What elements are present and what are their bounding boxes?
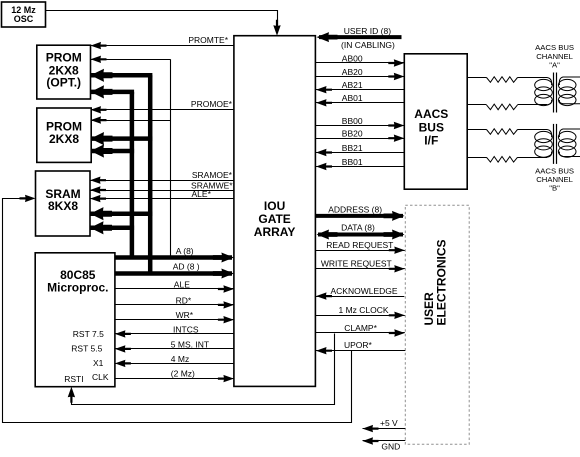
svg-text:2KX8: 2KX8 <box>49 132 79 146</box>
svg-text:GND: GND <box>381 441 400 451</box>
label AACS BUS CHANNEL B <box>535 166 574 192</box>
wire AB20 with label <box>315 67 404 80</box>
wire branch to PROM(OPT.) upper <box>91 56 171 63</box>
svg-text:"A": "A" <box>549 61 560 70</box>
wire PROMTE* with label <box>91 35 234 49</box>
wire 5 MS. INT with label <box>115 339 234 352</box>
wire AB01 with label <box>315 93 404 106</box>
wire BB00 with label <box>315 116 404 129</box>
bus A (8) with label <box>115 246 234 263</box>
PROM 2KX8 (OPT.) box <box>37 45 91 99</box>
80C85 Microprocessor box <box>35 253 115 387</box>
svg-text:PROM: PROM <box>46 119 82 133</box>
bus AD (8) with label <box>115 262 234 279</box>
wire SRAMWE* with label <box>90 180 234 193</box>
svg-text:(OPT.): (OPT.) <box>46 75 81 89</box>
wire PROMOE* with label <box>91 99 234 114</box>
svg-text:SRAMOE*: SRAMOE* <box>192 170 233 180</box>
svg-text:UPOR*: UPOR* <box>344 340 373 350</box>
svg-text:CLK: CLK <box>92 372 109 382</box>
svg-text:PROMOE*: PROMOE* <box>191 99 233 109</box>
svg-text:BB20: BB20 <box>342 129 363 139</box>
svg-text:AB21: AB21 <box>342 80 363 90</box>
wire AB00 with label <box>315 53 404 66</box>
wire BB21 with label <box>315 143 404 156</box>
transformer T1 channel A <box>535 73 580 113</box>
wire 4 Mz with label <box>115 354 234 367</box>
AACS BUS I/F box <box>404 54 467 189</box>
svg-text:BB21: BB21 <box>342 143 363 153</box>
wire UPOR* with label <box>315 340 405 355</box>
svg-text:AB20: AB20 <box>342 67 363 77</box>
svg-text:RD*: RD* <box>176 295 192 305</box>
SRAM 8KX8 box <box>36 171 91 236</box>
bus branch A to PROM <box>91 144 135 157</box>
svg-text:4 Mz: 4 Mz <box>171 354 189 364</box>
wire UPOR to SRAM left side <box>3 195 352 423</box>
bus branch AD to PROM(OPT.) <box>91 69 153 82</box>
bus branch AD to SRAM <box>90 207 152 220</box>
wire address-line vertical branch x=170 <box>170 59 172 257</box>
wire branch to PROM lower <box>91 116 171 123</box>
svg-text:DATA (8): DATA (8) <box>341 223 375 233</box>
resistor R3 channel B upper <box>467 129 547 135</box>
bus branch AD to PROM <box>91 132 153 145</box>
resistor R2 channel A lower <box>467 104 547 110</box>
svg-text:AACS: AACS <box>414 107 448 121</box>
svg-text:IOU: IOU <box>264 199 285 213</box>
svg-text:ELECTRONICS: ELECTRONICS <box>435 239 449 325</box>
bus USER ID (8) with label <box>317 26 402 42</box>
transformer T2 channel B <box>535 124 580 164</box>
wire READ REQUEST with label <box>315 240 404 254</box>
wire 1 Mz CLOCK with label <box>315 305 404 319</box>
svg-text:GATE: GATE <box>258 212 290 226</box>
svg-text:RST 5.5: RST 5.5 <box>71 344 102 354</box>
svg-text:PROM: PROM <box>46 50 82 64</box>
wire BB20 with label <box>315 129 404 142</box>
svg-text:BB01: BB01 <box>342 157 363 167</box>
wire WRITE REQUEST with label <box>315 259 404 273</box>
svg-text:RST 7.5: RST 7.5 <box>73 329 104 339</box>
wire SRAMOE* with label <box>90 170 234 184</box>
svg-text:RSTI: RSTI <box>64 374 83 384</box>
bus branch A to PROM(OPT.) <box>91 85 135 98</box>
wire INTCS with label <box>115 325 234 338</box>
svg-text:ACKNOWLEDGE: ACKNOWLEDGE <box>331 286 398 296</box>
bus branch A to SRAM <box>90 221 134 234</box>
svg-text:A (8): A (8) <box>176 246 194 256</box>
resistor R1 channel A upper <box>467 77 547 83</box>
oscillator box 12 Mz OSC <box>2 2 46 27</box>
svg-text:AB01: AB01 <box>342 93 363 103</box>
svg-text:READ REQUEST: READ REQUEST <box>326 240 393 250</box>
resistor R4 channel B lower <box>467 157 547 163</box>
svg-text:WR*: WR* <box>176 310 194 320</box>
svg-text:(IN CABLING): (IN CABLING) <box>341 40 395 50</box>
wire AB21 with label <box>315 80 404 93</box>
svg-text:8KX8: 8KX8 <box>48 199 78 213</box>
bus ADDRESS (8) with label <box>315 204 404 221</box>
bus AD vertical <box>148 75 153 275</box>
svg-text:+5 V: +5 V <box>380 418 398 428</box>
wire +5 V with label <box>363 418 406 432</box>
svg-text:AACS BUS: AACS BUS <box>535 43 574 52</box>
svg-text:OSC: OSC <box>14 14 34 24</box>
wire ALE* with label <box>90 189 234 202</box>
svg-text:Microproc.: Microproc. <box>47 280 108 294</box>
svg-text:ALE: ALE <box>174 280 190 290</box>
IOU GATE ARRAY box U1 <box>234 36 316 387</box>
svg-text:AD (8 ): AD (8 ) <box>173 262 200 272</box>
wire ACKNOWLEDGE with label <box>315 286 404 300</box>
svg-text:1 Mz CLOCK: 1 Mz CLOCK <box>339 305 389 315</box>
svg-text:WRITE REQUEST: WRITE REQUEST <box>321 259 392 269</box>
wire CLAMP-node to RSTI pin <box>68 334 335 405</box>
wire (2 Mz) with label <box>115 369 234 383</box>
svg-text:PROMTE*: PROMTE* <box>188 35 228 45</box>
wire ALE with label <box>115 280 234 293</box>
svg-text:BUS: BUS <box>419 120 444 134</box>
wire 12Mz OSC to IOU top <box>46 11 281 36</box>
svg-text:I/F: I/F <box>424 134 438 148</box>
wire CLAMP* with label <box>315 323 404 337</box>
svg-text:ADDRESS (8): ADDRESS (8) <box>328 204 382 214</box>
svg-text:USER ID (8): USER ID (8) <box>344 26 391 36</box>
wire GND with label <box>363 437 406 451</box>
wire RD* with label <box>115 295 234 308</box>
svg-text:INTCS: INTCS <box>173 325 199 335</box>
svg-text:ARRAY: ARRAY <box>254 225 296 239</box>
svg-text:CLAMP*: CLAMP* <box>344 323 377 333</box>
label AACS BUS CHANNEL A <box>535 43 574 70</box>
svg-text:(2 Mz): (2 Mz) <box>171 369 195 379</box>
svg-text:X1: X1 <box>93 358 104 368</box>
svg-text:5 MS. INT: 5 MS. INT <box>171 339 209 349</box>
USER ELECTRONICS dashed box <box>405 205 469 444</box>
wire WR* with label <box>115 310 234 323</box>
svg-text:BB00: BB00 <box>342 116 363 126</box>
svg-text:AB00: AB00 <box>342 53 363 63</box>
PROM 2KX8 box <box>37 108 91 162</box>
svg-text:"B": "B" <box>549 183 560 192</box>
bus DATA (8) bidirectional with label <box>317 223 405 240</box>
svg-text:ALE*: ALE* <box>192 189 212 199</box>
wire BB01 with label <box>315 157 404 170</box>
bus A vertical <box>130 92 135 260</box>
